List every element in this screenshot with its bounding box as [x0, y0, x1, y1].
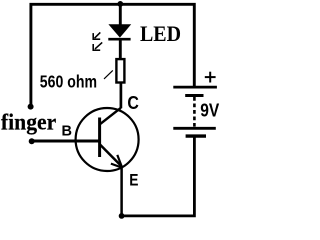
svg-text:9V: 9V	[200, 100, 219, 120]
svg-text:C: C	[127, 92, 138, 113]
svg-text:finger: finger	[1, 109, 56, 134]
svg-text:B: B	[62, 124, 73, 140]
svg-text:560 ohm: 560 ohm	[40, 72, 97, 92]
svg-text:LED: LED	[140, 21, 181, 46]
svg-text:E: E	[129, 170, 138, 189]
